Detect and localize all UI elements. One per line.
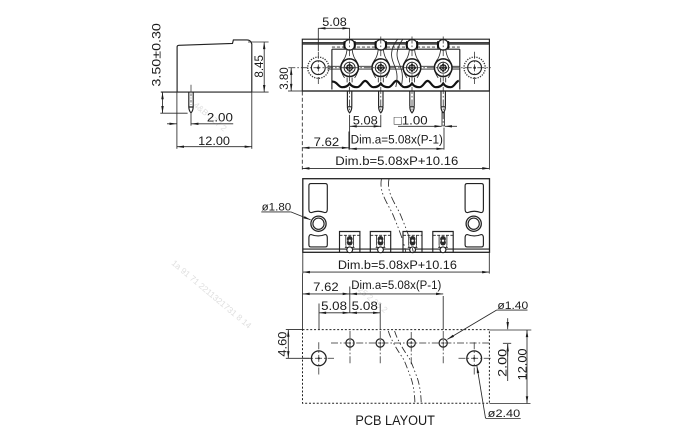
pin block 2 — [370, 232, 390, 253]
pin block 4 — [433, 232, 453, 253]
dimension 7.62 (pcb) — [303, 274, 350, 330]
front view break curves — [392, 39, 398, 87]
bottom-right slot — [465, 235, 483, 247]
front wavy bottom line — [332, 81, 459, 87]
dimension 5.08 first (pcb) — [319, 299, 350, 329]
top-right slot — [465, 184, 483, 213]
svg-text:7.62: 7.62 — [314, 135, 340, 149]
dimension 5.08 second (pcb) — [350, 299, 380, 329]
terminal 4 assembly — [434, 40, 452, 83]
dimension 3.50±0.30 — [149, 23, 187, 113]
svg-text:□1.00: □1.00 — [394, 114, 428, 128]
front housing outline — [302, 39, 489, 91]
front pins 1-3 — [347, 91, 414, 113]
dimension Dim.b (front) — [302, 92, 489, 170]
svg-text:Dim.b=5.08xP+10.16: Dim.b=5.08xP+10.16 — [338, 258, 457, 272]
pin block 3 — [403, 232, 422, 253]
svg-text:ø2.40: ø2.40 — [488, 408, 521, 420]
dimension Dim.a=5.08x(P-1) (front) — [349, 128, 444, 150]
pcb dashed outline — [303, 330, 490, 404]
dimension 2.00 — [167, 111, 233, 126]
pcb break lines — [388, 331, 421, 403]
dimension 5.08 (bottom of pins) — [350, 114, 381, 150]
pcb small hole row centerline — [331, 342, 491, 344]
svg-text:12.00: 12.00 — [516, 348, 530, 380]
terminal 1 assembly — [341, 40, 359, 83]
svg-text:Dim.b=5.08xP+10.16: Dim.b=5.08xP+10.16 — [335, 154, 458, 168]
dimension Dim.b (top view) — [303, 253, 490, 274]
dimension 12.00 — [177, 92, 252, 149]
top view right hole — [466, 216, 481, 231]
terminal 2 assembly — [372, 40, 390, 83]
dimension 12.00 (pcb right) — [490, 330, 531, 404]
top-left slot — [309, 184, 327, 213]
watermark faint diagonal text 2 — [192, 100, 229, 134]
horizontal centerline through terminal row — [288, 67, 491, 69]
pin block 1 — [340, 232, 360, 253]
dimension 3.80 (left of front view) — [277, 67, 303, 91]
front pin 4 (long, for square dim) — [441, 91, 445, 107]
label ø2.40 with leader — [477, 366, 521, 420]
svg-text:5.08: 5.08 — [352, 299, 378, 313]
svg-text:Dim.a=5.08x(P-1): Dim.a=5.08x(P-1) — [351, 278, 441, 292]
watermark faint diagonal text 3 — [351, 280, 390, 315]
side view body outline — [161, 40, 252, 92]
front center block — [332, 47, 460, 89]
svg-text:1a 91 71 2211321731 8 14: 1a 91 71 2211321731 8 14 — [170, 258, 254, 331]
left mounting circle — [308, 57, 329, 78]
dimension 4.60 — [276, 330, 312, 359]
svg-text:5.08: 5.08 — [322, 15, 347, 29]
inter-terminal wing lines — [327, 66, 459, 69]
dimension 5.08 (top) — [318, 15, 349, 51]
dimension 2.00 (pcb right) — [490, 318, 532, 381]
svg-text:5.08: 5.08 — [321, 299, 347, 313]
svg-text:2.00: 2.00 — [207, 111, 233, 125]
svg-text:2.00: 2.00 — [495, 349, 509, 377]
svg-text:4.60: 4.60 — [276, 331, 290, 356]
svg-text:Dim.a=5.08x(P-1): Dim.a=5.08x(P-1) — [351, 132, 443, 146]
svg-text:12.00: 12.00 — [198, 134, 230, 148]
label ø1.40 with leader — [447, 300, 528, 340]
svg-text:5.08: 5.08 — [353, 114, 378, 128]
pcb big hole right — [459, 342, 492, 374]
top view break lines — [381, 179, 413, 253]
label ø1.80 with leader — [261, 202, 310, 220]
pcb small holes — [346, 339, 447, 347]
dimension 8.45 — [248, 42, 269, 92]
svg-text:8.45: 8.45 — [252, 55, 266, 78]
side view pin — [189, 85, 193, 113]
svg-text:3.50±0.30: 3.50±0.30 — [149, 23, 163, 87]
top view outline — [303, 179, 490, 253]
dimension Dim.a (pcb) — [350, 278, 443, 330]
pcb small hole centerlines vertical — [350, 331, 443, 365]
watermark faint diagonal text 1 — [170, 258, 254, 331]
svg-text:7.62: 7.62 — [313, 280, 339, 294]
vertical centerlines of terminals — [318, 37, 474, 127]
svg-text:3.80: 3.80 — [277, 67, 291, 90]
front housing bottom edge — [302, 90, 489, 92]
terminal 3 assembly — [403, 40, 421, 83]
bottom-left slot — [309, 235, 327, 247]
dimension 7.62 (front) — [302, 135, 349, 149]
pcb big hole left — [302, 342, 334, 374]
top view left hole — [311, 216, 326, 231]
dimension square 1.00 — [394, 114, 457, 128]
svg-text:PCB LAYOUT: PCB LAYOUT — [355, 413, 435, 428]
right mounting circle — [464, 57, 485, 78]
